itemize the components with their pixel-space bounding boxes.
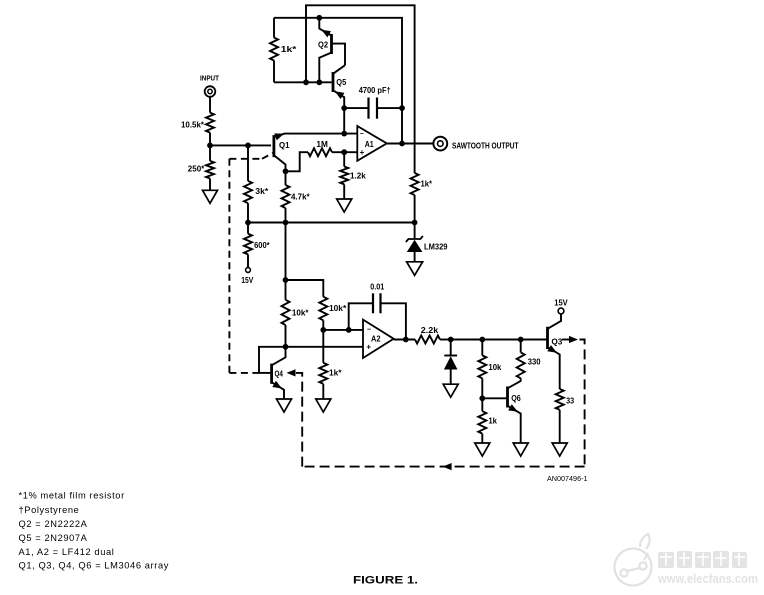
svg-text:Q3: Q3 (551, 338, 563, 347)
ground 1k (475, 443, 490, 456)
resistor 1k (481, 398, 483, 411)
wire A2 plus (259, 347, 363, 373)
diode D1 wire top (450, 340, 452, 356)
svg-text:1k*: 1k* (329, 368, 342, 377)
resistor 2.2k (415, 336, 440, 344)
wire branch to 10k2 (286, 280, 324, 297)
svg-text:INPUT: INPUT (200, 73, 219, 82)
diode D1 wire bottom (450, 370, 452, 385)
svg-text:330: 330 (528, 358, 541, 367)
transistor Q6 emitter arrow (508, 404, 518, 412)
transistor Q1 emitter arrow (274, 133, 284, 140)
resistor 1k* feedback right (411, 173, 419, 195)
svg-text:AN007496-1: AN007496-1 (547, 476, 588, 483)
junction dot A1 plus node (341, 149, 347, 155)
terminal SAWTOOTH OUTPUT (433, 137, 447, 151)
wire input to resistor (209, 97, 211, 113)
terminal 15V left (246, 268, 251, 273)
junction dot plus-10k1 (283, 344, 289, 350)
resistor 1k* top (273, 18, 275, 38)
op-amp A2 triangle (363, 320, 394, 358)
svg-text:−: − (360, 131, 364, 138)
dashed wire fb up (295, 373, 302, 467)
svg-text:+: + (360, 148, 365, 157)
ground input divider (203, 190, 218, 203)
junction dot node rail-306 (303, 79, 309, 85)
wire rail 222 (248, 222, 415, 224)
transistor Q2 collector (319, 53, 331, 83)
junction dot cap-right (399, 105, 405, 111)
resistor 10k* second (319, 297, 327, 321)
resistor 10k* first (282, 300, 290, 325)
junction dot node top-319 (316, 15, 322, 21)
ground 33 (552, 443, 567, 456)
svg-text:A2: A2 (371, 334, 381, 343)
junction dot rail-10k (479, 337, 485, 343)
junction dot node-280 (283, 277, 289, 283)
transistor Q1 lower lead (274, 155, 286, 171)
junction dot A1 minus node (341, 131, 347, 137)
resistor 4.7k* (285, 171, 287, 185)
junction dot Q6 base node (479, 395, 485, 401)
svg-text:Q1: Q1 (279, 141, 290, 150)
dashed arrow fb bottom (443, 463, 452, 470)
transistor Q5 emitter arrow (335, 91, 345, 99)
transistor Q2 emitter (319, 18, 331, 36)
svg-text:1.2k: 1.2k (350, 172, 366, 181)
ground 1.2k (337, 199, 352, 212)
transistor Q3 emitter (548, 347, 560, 389)
transistor Q6 emitter (508, 406, 521, 443)
diode LM329 cathode bar (406, 236, 423, 242)
watermark elecfans (615, 534, 652, 586)
svg-text:−: − (367, 327, 371, 334)
wire A2 minus (323, 329, 363, 331)
transistor Q2 base lead (332, 44, 346, 66)
wire Q5 base rail (274, 81, 332, 83)
transistor Q4 base lead (259, 372, 272, 374)
junction dot A2out-cap (403, 337, 409, 343)
transistor Q1 bar (272, 135, 275, 157)
svg-text:Q1, Q3, Q4, Q6 = LM3046 array: Q1, Q3, Q4, Q6 = LM3046 array (19, 561, 169, 571)
svg-text:4700 pF†: 4700 pF† (359, 86, 391, 95)
wire A1 output (387, 143, 434, 145)
svg-text:†Polystyrene: †Polystyrene (19, 505, 80, 515)
wire A2 output rail (394, 339, 415, 341)
diode D1 anode triangle (444, 356, 458, 369)
junction dot rail-3k (245, 220, 251, 226)
dashed wire fb right (580, 340, 585, 467)
transistor Q3 emitter arrow (547, 345, 557, 353)
svg-text:33: 33 (566, 397, 574, 406)
svg-text:1k*: 1k* (281, 45, 298, 54)
svg-text:Q4: Q4 (275, 369, 284, 378)
dashed arrow at Q3 (562, 339, 571, 341)
svg-text:Q2 = 2N2222A: Q2 = 2N2222A (19, 519, 88, 529)
wire Q6 base (482, 397, 507, 399)
transistor Q4 collector (272, 347, 286, 366)
diode LM329 wire top (414, 223, 416, 240)
transistor Q5 bar (332, 72, 335, 92)
diode LM329 anode triangle (407, 240, 423, 252)
junction dot rail-4.7k (283, 220, 289, 226)
capacitor 4700pF right wire (377, 107, 402, 109)
junction dot rail-LM329 (412, 220, 418, 226)
wire 285 vertical (285, 223, 287, 300)
junction dot A2 minus node (320, 327, 326, 333)
svg-text:A1, A2 = LF412 dual: A1, A2 = LF412 dual (19, 547, 115, 557)
resistor 1.2k (343, 152, 345, 166)
transistor Q2 bar (330, 34, 333, 54)
svg-text:0.01: 0.01 (370, 282, 384, 291)
capacitor 0.01 left wire (349, 303, 373, 330)
dashed wire Q1 branch (229, 158, 262, 160)
op-amp A1 triangle (357, 126, 387, 161)
terminal 15V Q3 (558, 308, 564, 314)
diode D1 cathode bar (444, 355, 457, 357)
wire input node to Q1 base (210, 144, 271, 146)
capacitor 4700pF left wire (344, 107, 368, 109)
capacitor 4700pF plates (367, 98, 369, 119)
svg-text:15V: 15V (241, 276, 254, 285)
svg-text:Q5 = 2N2907A: Q5 = 2N2907A (19, 533, 88, 543)
resistor 330 (520, 340, 522, 353)
svg-text:1k: 1k (488, 416, 497, 425)
svg-text:10k*: 10k* (292, 309, 309, 318)
capacitor 0.01 plates (372, 293, 374, 313)
svg-text:15V: 15V (554, 299, 568, 308)
svg-text:1M: 1M (316, 140, 328, 149)
junction dot rail-diode (448, 337, 454, 343)
resistor 10.5k* (206, 113, 214, 133)
transistor Q4 bar (270, 364, 273, 384)
junction dot input node (207, 143, 213, 149)
svg-text:250*: 250* (188, 165, 205, 174)
transistor Q6 collector (508, 378, 521, 388)
junction dot fb node (346, 327, 352, 333)
resistor 33 (556, 389, 564, 410)
wire cap node to A1 minus (343, 108, 345, 134)
svg-text:10.5k*: 10.5k* (181, 121, 205, 130)
transistor Q1 emitter top (274, 134, 357, 138)
svg-text:FIGURE 1.: FIGURE 1. (353, 575, 418, 587)
junction dot cap-left (341, 105, 347, 111)
transistor Q3 bar (546, 327, 549, 349)
ground Q6 (513, 443, 528, 456)
transistor Q4 emitter (272, 382, 284, 399)
wire rail diode to Q3 (451, 339, 547, 341)
svg-text:4.7k*: 4.7k* (291, 193, 310, 202)
svg-text:600*: 600* (254, 241, 270, 250)
svg-text:Q5: Q5 (336, 78, 347, 87)
terminal INPUT circle (205, 86, 216, 97)
svg-text:*1% metal film resistor: *1% metal film resistor (19, 491, 125, 501)
capacitor 0.01 right wire (381, 303, 406, 339)
dashed arrow at Q4 (287, 369, 296, 376)
ground 1k* A2 (316, 399, 331, 412)
resistor 1M (308, 148, 332, 156)
junction dot rail-330 (518, 337, 524, 343)
resistor 250* (209, 145, 211, 161)
svg-text:www.elecfans.com: www.elecfans.com (657, 571, 758, 586)
dashed wire fb bottom (302, 466, 584, 468)
diode LM329 wire bottom (414, 252, 416, 262)
resistor 3k* (247, 145, 249, 181)
wire outer top loop (306, 5, 415, 173)
svg-text:3k*: 3k* (255, 187, 269, 196)
svg-text:Q6: Q6 (511, 394, 521, 403)
svg-text:+: + (366, 343, 371, 352)
ground Q4 (277, 399, 292, 412)
svg-text:10k*: 10k* (329, 304, 347, 313)
wire Q1 lower to 1M (286, 152, 309, 171)
resistor 10k (481, 340, 483, 356)
resistor 1k* A2 (322, 330, 324, 363)
dashed wire left vertical (228, 159, 230, 373)
svg-text:Q2: Q2 (318, 40, 329, 49)
svg-text:LM329: LM329 (424, 242, 448, 251)
dashed wire to Q4 base (229, 372, 259, 374)
junction dot output-402 (399, 141, 405, 147)
transistor Q5 collector (333, 65, 345, 74)
wire inner top loop (274, 18, 402, 144)
junction dot 3k top (245, 143, 251, 149)
svg-text:10k: 10k (488, 363, 502, 372)
svg-text:1k*: 1k* (421, 179, 433, 188)
svg-text:SAWTOOTH OUTPUT: SAWTOOTH OUTPUT (452, 141, 519, 150)
ground LM329 (407, 262, 423, 276)
transistor Q6 bar (506, 387, 509, 408)
junction dot node rail-319 (316, 79, 322, 85)
transistor Q4 emitter arrow (272, 381, 282, 389)
transistor Q2 emitter arrow (321, 30, 331, 38)
junction dot Q1-4.7k node (283, 168, 289, 174)
transistor Q5 emitter (333, 90, 344, 108)
svg-text:2.2k: 2.2k (421, 326, 439, 335)
transistor Q3 collector (548, 314, 562, 329)
svg-text:A1: A1 (365, 140, 374, 149)
resistor 600* (247, 223, 249, 234)
ground D1 (443, 384, 458, 397)
